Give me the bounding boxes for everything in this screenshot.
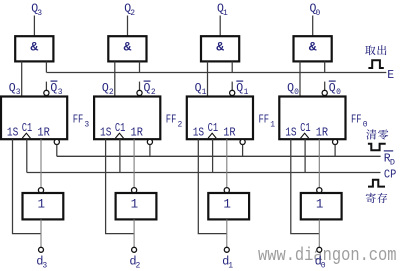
svg-text:1S: 1S — [7, 127, 18, 140]
inverter U0 — [301, 193, 342, 219]
wire: Q3 output stub above AND gate — [33, 16, 35, 37]
svg-text:1: 1 — [223, 198, 231, 212]
reset bubble of FF2 — [147, 139, 152, 144]
wire: d1 to FF1 1S input — [198, 139, 227, 233]
svg-text:Q: Q — [329, 82, 336, 95]
wire: FF2 Q output up to AND input — [114, 61, 116, 96]
wire: FF0 reset to RD rail — [334, 145, 336, 157]
svg-text:2: 2 — [136, 261, 141, 270]
svg-text:1: 1 — [131, 198, 139, 212]
svg-text:1: 1 — [270, 121, 275, 130]
wire: FF3 reset to RD rail — [56, 145, 58, 157]
svg-text:FF: FF — [259, 112, 270, 126]
label 取出 (readout) — [365, 45, 386, 55]
label FF1 — [259, 112, 276, 129]
node Q3 (FF output label) — [9, 82, 21, 97]
node Q2 (top output label) — [124, 3, 135, 18]
svg-text:C1: C1 — [115, 122, 126, 135]
flip-flop FF3 — [1, 97, 67, 140]
inversion bubble on Qbar3 — [44, 90, 49, 95]
node Q3 (top output label) — [31, 3, 42, 18]
node d2 (input label) — [129, 254, 140, 270]
node Q2 (FF output label) — [102, 82, 114, 97]
svg-text:Q: Q — [195, 82, 202, 95]
node d1 (input label) — [222, 254, 233, 270]
node RD (active-low reset label) — [384, 151, 395, 168]
label 清零 (clear) — [366, 129, 388, 139]
terminal d1 — [224, 247, 229, 252]
pulse symbol for CP — [368, 180, 385, 187]
svg-text:Q: Q — [102, 82, 109, 95]
wire: d2 input to inverter U2 — [133, 219, 135, 247]
wire: Qbar0 stub — [324, 82, 326, 91]
svg-text:1: 1 — [316, 198, 324, 212]
wire: CP clock rail — [27, 172, 381, 174]
svg-text:0: 0 — [321, 261, 326, 270]
wire: FF2 reset to RD rail — [149, 145, 151, 157]
inversion bubble on Qbar2 — [137, 90, 142, 95]
svg-text:&: & — [123, 39, 131, 54]
svg-text:Q: Q — [144, 82, 151, 95]
wire: d2 to FF2 1S input — [106, 139, 135, 233]
dynamic clock input triangle of FF0 — [301, 133, 309, 138]
and-gate G3 — [15, 36, 53, 61]
svg-text:2: 2 — [130, 9, 135, 18]
svg-text:0: 0 — [316, 9, 321, 18]
wire: E readout rail — [47, 72, 387, 74]
negative pulse symbol for RD — [368, 144, 386, 151]
node Qbar1 (inverted output label with overbar) — [236, 81, 248, 97]
svg-text:C1: C1 — [22, 122, 33, 135]
wire: AND G3 input from E rail — [45, 61, 47, 72]
svg-text:FF: FF — [351, 112, 362, 126]
wire: FF2 clock to CP rail — [119, 139, 121, 172]
svg-text:1S: 1S — [285, 127, 296, 140]
inverter U2 — [116, 193, 157, 219]
wire: inverter U2 output to FF2 1R input — [133, 139, 135, 187]
svg-text:1R: 1R — [316, 127, 328, 140]
svg-text:C1: C1 — [300, 122, 311, 135]
dynamic clock input triangle of FF3 — [22, 133, 30, 138]
node Qbar3 (inverted output label with overbar) — [50, 81, 62, 97]
inversion bubble of inverter U3 — [38, 188, 43, 193]
dynamic clock input triangle of FF1 — [208, 133, 216, 138]
svg-text:2: 2 — [178, 121, 183, 130]
and-gate G2 — [108, 36, 146, 61]
inverter U1 — [208, 193, 249, 219]
svg-text:3: 3 — [84, 121, 89, 130]
terminal d3 — [39, 247, 44, 252]
svg-text:&: & — [30, 39, 38, 54]
wire: d1 input to inverter U1 — [226, 219, 228, 247]
wire: AND G0 input from E rail — [324, 61, 326, 72]
wire: AND G2 input from E rail — [139, 61, 141, 72]
wire: FF3 Q output up to AND input — [21, 61, 23, 96]
flip-flop FF0 — [279, 97, 345, 140]
svg-text:1: 1 — [38, 198, 46, 212]
wire: Q2 output stub above AND gate — [127, 16, 129, 37]
node Q1 (top output label) — [217, 3, 228, 18]
wire: FF1 Q output up to AND input — [207, 61, 209, 96]
node Q0 (top output label) — [310, 3, 321, 18]
label FF3 — [73, 112, 90, 129]
wire: d3 input to inverter U3 — [40, 219, 42, 247]
node Q0 (FF output label) — [287, 82, 299, 97]
svg-text:1: 1 — [228, 261, 233, 270]
svg-text:Q: Q — [50, 82, 57, 95]
svg-text:0: 0 — [363, 121, 368, 130]
wire: d0 to FF0 1S input — [291, 139, 320, 233]
svg-text:Q: Q — [287, 82, 294, 95]
pulse symbol for E — [368, 60, 383, 68]
wire: d3 to FF3 1S input — [13, 139, 42, 233]
wire: Q0 output stub above AND gate — [312, 16, 314, 37]
wire: inverter U1 output to FF1 1R input — [226, 139, 228, 187]
node d3 (input label) — [36, 254, 47, 270]
reset bubble of FF1 — [240, 139, 245, 144]
dynamic clock input triangle of FF2 — [115, 133, 123, 138]
svg-text:C1: C1 — [208, 122, 219, 135]
svg-text:1S: 1S — [193, 127, 204, 140]
svg-text:Q: Q — [236, 82, 243, 95]
inversion bubble on Qbar1 — [230, 90, 235, 95]
node d0 (input label) — [315, 254, 326, 270]
svg-text:1S: 1S — [100, 127, 111, 140]
svg-text:CP: CP — [384, 169, 396, 182]
inversion bubble of inverter U0 — [317, 188, 322, 193]
label 寄存 (store) — [366, 193, 387, 203]
flip-flop FF2 — [94, 97, 160, 140]
svg-text:&: & — [216, 39, 224, 54]
inversion bubble on Qbar0 — [322, 90, 327, 95]
svg-text:&: & — [309, 39, 317, 54]
svg-text:1R: 1R — [37, 127, 49, 140]
label FF2 — [166, 112, 183, 129]
svg-text:www.diangon.com: www.diangon.com — [258, 246, 397, 266]
node Qbar0 (inverted output label with overbar) — [329, 81, 341, 97]
reset bubble of FF0 — [333, 139, 338, 144]
wire: RD clear rail — [57, 155, 381, 157]
flip-flop FF1 — [187, 97, 253, 140]
svg-text:3: 3 — [42, 261, 47, 270]
wire: Qbar3 stub — [45, 82, 47, 91]
svg-text:3: 3 — [37, 9, 42, 18]
svg-text:1R: 1R — [223, 127, 235, 140]
wire: d0 input to inverter U0 — [318, 219, 320, 247]
svg-text:1R: 1R — [131, 127, 143, 140]
and-gate G1 — [201, 36, 239, 61]
svg-text:Q: Q — [9, 82, 16, 95]
label FF0 — [351, 112, 368, 129]
svg-text:E: E — [387, 69, 394, 82]
node Q1 (FF output label) — [195, 82, 207, 97]
inverter U3 — [23, 193, 64, 219]
wire: inverter U3 output to FF3 1R input — [40, 139, 42, 187]
wire: AND G1 input from E rail — [231, 61, 233, 72]
node Qbar2 (inverted output label with overbar) — [144, 81, 156, 97]
reset bubble of FF3 — [54, 139, 59, 144]
svg-text:D: D — [390, 157, 395, 167]
svg-text:FF: FF — [166, 112, 177, 126]
inversion bubble of inverter U1 — [224, 188, 229, 193]
wire: Q1 output stub above AND gate — [219, 16, 221, 37]
wire: Qbar1 stub — [231, 82, 233, 91]
wire: FF0 clock to CP rail — [304, 139, 306, 172]
wire: inverter U0 output to FF0 1R input — [318, 139, 320, 187]
wire: FF3 clock to CP rail — [26, 139, 28, 172]
terminal d2 — [132, 247, 137, 252]
wire: FF1 reset to RD rail — [242, 145, 244, 157]
wire: Qbar2 stub — [139, 82, 141, 91]
svg-text:1: 1 — [223, 9, 228, 18]
terminal d0 — [317, 247, 322, 252]
wire: FF1 clock to CP rail — [212, 139, 214, 172]
wire: FF0 Q output up to AND input — [299, 61, 301, 96]
svg-text:FF: FF — [73, 112, 84, 126]
and-gate G0 — [294, 36, 332, 61]
inversion bubble of inverter U2 — [132, 188, 137, 193]
